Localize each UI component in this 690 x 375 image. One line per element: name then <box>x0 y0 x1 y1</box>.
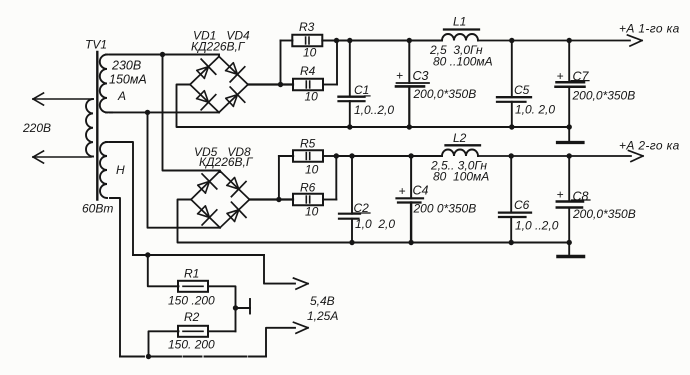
svg-text:C8: C8 <box>573 190 589 204</box>
svg-text:1,0 2,0: 1,0 2,0 <box>355 217 395 231</box>
svg-text:150. 200: 150. 200 <box>168 338 215 352</box>
svg-text:10: 10 <box>303 46 317 60</box>
svg-text:200,0*350В: 200,0*350В <box>413 87 477 101</box>
svg-text:C5: C5 <box>514 83 530 97</box>
svg-text:C3: C3 <box>413 69 429 83</box>
svg-text:L1: L1 <box>453 15 466 29</box>
svg-text:КД226В,Г: КД226В,Г <box>199 155 254 169</box>
svg-text:10: 10 <box>305 163 319 177</box>
svg-text:200,0*350В: 200,0*350В <box>572 89 636 103</box>
svg-text:60Вт: 60Вт <box>82 202 113 216</box>
svg-text:220В: 220В <box>22 121 51 135</box>
svg-text:+А 2-го ка: +А 2-го ка <box>619 139 680 153</box>
svg-text:Н: Н <box>116 163 125 177</box>
svg-text:80 ..100мА: 80 ..100мА <box>433 55 493 69</box>
svg-text:1,0 ..2,0: 1,0 ..2,0 <box>515 219 559 233</box>
svg-text:C7: C7 <box>573 70 590 84</box>
svg-text:200 0*350В: 200 0*350В <box>413 202 477 216</box>
svg-text:+: + <box>557 188 564 202</box>
svg-text:R4: R4 <box>300 64 316 78</box>
svg-text:1,0. 2,0: 1,0. 2,0 <box>515 103 555 117</box>
svg-text:R5: R5 <box>300 137 316 151</box>
svg-text:R6: R6 <box>300 181 316 195</box>
svg-text:10: 10 <box>305 205 319 219</box>
svg-text:+: + <box>399 184 406 198</box>
svg-text:5,4В: 5,4В <box>310 294 335 308</box>
svg-text:+А 1-го ка: +А 1-го ка <box>619 22 680 36</box>
svg-text:230В: 230В <box>111 59 141 73</box>
svg-text:10: 10 <box>305 90 319 104</box>
svg-text:TV1: TV1 <box>85 38 107 52</box>
svg-text:R1: R1 <box>184 267 199 281</box>
svg-text:L2: L2 <box>453 131 467 145</box>
svg-text:C6: C6 <box>514 198 530 212</box>
svg-text:КД226В,Г: КД226В,Г <box>191 40 246 54</box>
svg-text:А: А <box>117 89 126 103</box>
svg-text:1,25А: 1,25А <box>307 309 338 323</box>
svg-text:R3: R3 <box>299 20 315 34</box>
svg-text:C4: C4 <box>413 184 429 198</box>
svg-text:150 .200: 150 .200 <box>168 294 215 308</box>
svg-text:C1: C1 <box>354 83 369 97</box>
svg-text:R2: R2 <box>184 310 200 324</box>
svg-text:+: + <box>396 69 403 83</box>
svg-text:200,0*350В: 200,0*350В <box>572 207 636 221</box>
svg-text:1,0..2,0: 1,0..2,0 <box>354 103 394 117</box>
svg-text:+: + <box>557 69 564 83</box>
svg-text:150мА: 150мА <box>109 73 147 87</box>
svg-text:80 100мА: 80 100мА <box>433 170 489 184</box>
